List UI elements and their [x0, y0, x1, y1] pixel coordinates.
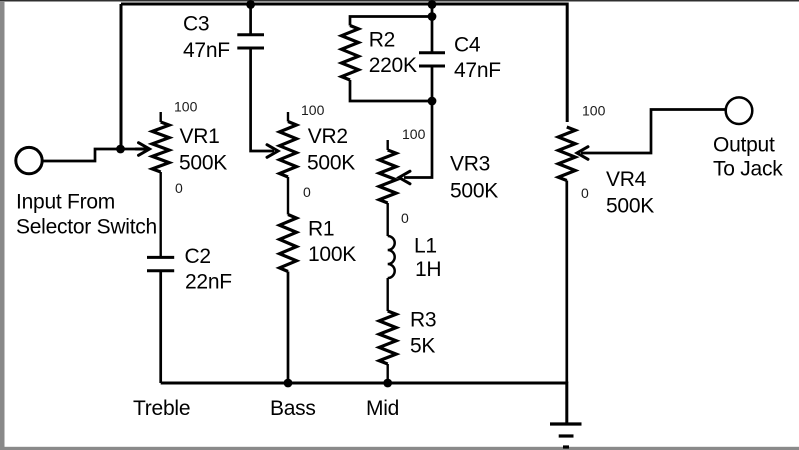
- wire VR3 top stub: [387, 140, 389, 150]
- capacitor C4: [419, 53, 445, 66]
- potentiometer VR2: [280, 122, 297, 178]
- label R3 value: [410, 309, 436, 358]
- left gray border bar: [0, 1, 5, 450]
- wire C2 bottom to ground rail: [159, 271, 162, 383]
- wire L1 bottom to R3: [387, 278, 389, 311]
- svg-text:100: 100: [582, 103, 606, 119]
- label C2 value: [185, 245, 232, 294]
- wire R2/C4 parallel bottom branch: [350, 80, 432, 101]
- svg-text:Input From: Input From: [16, 191, 115, 214]
- wire VR2 top stub: [287, 112, 289, 122]
- svg-text:C3: C3: [183, 13, 209, 36]
- svg-text:47nF: 47nF: [183, 39, 230, 62]
- svg-text:Bass: Bass: [270, 397, 316, 420]
- output jack circle: [726, 97, 753, 124]
- wire VR2 bottom to R1: [287, 177, 289, 215]
- inductor L1: [388, 236, 395, 278]
- svg-text:47nF: 47nF: [454, 59, 501, 82]
- svg-text:C2: C2: [185, 245, 211, 268]
- wire VR3 bottom to L1: [387, 203, 389, 236]
- top window edge line: [0, 0, 799, 2]
- bottom gray border bar: [0, 447, 799, 450]
- svg-text:VR3: VR3: [450, 153, 490, 176]
- label VR1 value: [179, 125, 227, 175]
- svg-text:C4: C4: [454, 34, 481, 57]
- capacitor C2: [147, 257, 174, 270]
- svg-text:500K: 500K: [606, 195, 654, 218]
- svg-text:0: 0: [581, 185, 589, 201]
- potentiometer VR1: [152, 122, 169, 172]
- wire VR4 bottom to ground rail: [565, 181, 568, 384]
- arrow into VR1 wiper: [136, 143, 150, 156]
- node dot input junction: [116, 145, 125, 154]
- wire node A to VR1 wiper arrow: [121, 148, 277, 151]
- label VR3 value: [450, 153, 498, 203]
- resistor R2: [342, 26, 359, 81]
- svg-text:VR1: VR1: [180, 125, 220, 148]
- svg-text:100K: 100K: [308, 243, 356, 266]
- wire R2/C4 parallel top branch: [350, 17, 432, 26]
- svg-text:VR4: VR4: [606, 168, 647, 191]
- node dot R2/C4 bottom branch: [428, 97, 437, 106]
- svg-text:R3: R3: [410, 309, 436, 332]
- svg-text:Selector Switch: Selector Switch: [16, 216, 157, 239]
- svg-text:22nF: 22nF: [185, 271, 232, 294]
- svg-text:0: 0: [303, 184, 311, 200]
- wire bottom ground rail: [161, 383, 567, 424]
- wire R3 bottom to ground rail: [387, 364, 389, 383]
- svg-text:To Jack: To Jack: [713, 158, 783, 181]
- svg-text:Output: Output: [713, 134, 775, 157]
- label R1 value: [308, 218, 356, 267]
- svg-text:L1: L1: [414, 235, 437, 258]
- capacitor C3: [237, 35, 264, 48]
- node dot R2/C4 top branch: [428, 12, 437, 21]
- svg-text:VR2: VR2: [308, 125, 348, 148]
- wire C4 vertical from top rail: [431, 4, 434, 52]
- wire R1 bottom to ground rail: [287, 272, 290, 384]
- resistor R1: [280, 215, 297, 272]
- label VR2 value: [307, 125, 355, 175]
- node dot bass on ground rail: [284, 379, 293, 388]
- node dot on top rail at C3: [246, 0, 255, 9]
- svg-text:100: 100: [174, 99, 198, 115]
- wire input jack to node A: [41, 149, 121, 161]
- potentiometer VR3: [379, 150, 396, 203]
- svg-text:100: 100: [402, 126, 426, 142]
- label C4 value: [454, 34, 501, 83]
- svg-text:Treble: Treble: [133, 397, 190, 420]
- svg-text:1H: 1H: [415, 258, 441, 281]
- wire C3 bottom to VR2 wiper arrow: [251, 49, 274, 152]
- label R2 value: [369, 29, 417, 78]
- input jack circle: [16, 147, 42, 173]
- label L1 value: [414, 235, 441, 282]
- arrow into VR2 wiper: [267, 145, 278, 158]
- svg-text:220K: 220K: [369, 54, 417, 77]
- label VR4 value: [606, 168, 654, 218]
- svg-text:0: 0: [401, 210, 409, 226]
- node dot on top rail at C4: [428, 0, 437, 9]
- arrow into VR3 wiper: [399, 171, 410, 184]
- wire VR1 top stub: [159, 112, 161, 122]
- svg-text:R1: R1: [308, 218, 334, 241]
- wire C3 top stub from rail: [249, 4, 252, 34]
- svg-text:0: 0: [175, 180, 183, 196]
- wire VR4 wiper arrow to output jack: [581, 110, 726, 154]
- ground: [550, 424, 582, 447]
- svg-text:500K: 500K: [179, 152, 227, 175]
- svg-text:500K: 500K: [450, 180, 498, 203]
- svg-text:Mid: Mid: [366, 397, 399, 420]
- wire top rail and right rail down to VR4: [121, 4, 567, 122]
- arrow into VR4 wiper: [577, 147, 588, 160]
- svg-text:R2: R2: [369, 29, 395, 52]
- label output: [713, 134, 783, 181]
- potentiometer VR4: [558, 127, 575, 181]
- svg-text:500K: 500K: [307, 152, 355, 175]
- resistor R3: [379, 311, 396, 364]
- label C3 value: [183, 13, 230, 63]
- svg-text:100: 100: [301, 102, 325, 118]
- wire VR1 bottom to C2: [159, 172, 161, 257]
- svg-text:5K: 5K: [410, 335, 435, 358]
- label input: [16, 191, 157, 239]
- wire left rail: [120, 4, 123, 149]
- wire C4 bottom to VR3 wiper arrow: [404, 67, 432, 178]
- node dot mid on ground rail: [383, 379, 392, 388]
